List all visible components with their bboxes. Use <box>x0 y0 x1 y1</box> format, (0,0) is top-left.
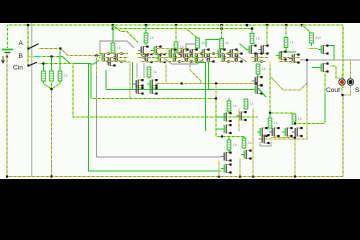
svg-text:S: S <box>355 87 360 94</box>
wire r13 bottom <box>311 43 313 46</box>
wire A <box>39 47 102 56</box>
wire r9 lead <box>221 25 223 39</box>
transistor Q34 <box>221 152 232 162</box>
resistor R9 <box>220 39 224 49</box>
wire c2 verts <box>137 63 144 78</box>
wire S led riser <box>342 60 351 79</box>
battery arrow <box>2 56 5 63</box>
switch B closed blade <box>29 56 35 58</box>
wire q41 out <box>271 136 296 177</box>
left +V wire <box>7 25 9 48</box>
wire res to ground <box>50 88 52 178</box>
svg-text:1k: 1k <box>201 40 205 45</box>
wire L2 rail <box>258 138 307 140</box>
wire r16 bottom <box>228 150 230 152</box>
transistor Q4 <box>151 46 162 56</box>
transistor Q37 <box>257 127 268 137</box>
transistor Q15 <box>187 49 198 59</box>
wire c5 diag <box>238 50 247 62</box>
transistor Q28 <box>289 54 300 64</box>
node rail x267 <box>266 24 268 26</box>
resistor R16 <box>227 140 231 150</box>
right rail wire upper <box>342 25 344 88</box>
wire c6 diag out <box>258 88 266 97</box>
svg-text:1k: 1k <box>250 101 254 106</box>
node bottom rail joins <box>218 176 220 178</box>
transistor Q12 <box>178 49 189 59</box>
wire drop x190 <box>190 58 201 84</box>
top +V rail wire <box>8 24 344 26</box>
wire gray S line <box>300 59 360 61</box>
wire yellow poly <box>270 62 307 90</box>
wire B highlight <box>35 56 41 58</box>
bottom 0V rail wire <box>7 176 343 178</box>
switch Cin blade <box>27 62 37 66</box>
wire r6 bottom <box>148 77 150 79</box>
wire r14 bottom <box>228 111 230 113</box>
node rail c5 <box>220 24 222 26</box>
wire r12 bottom <box>280 48 296 53</box>
resistor R14 <box>227 101 231 111</box>
svg-text:1k: 1k <box>117 45 121 50</box>
wire xor1 out <box>91 98 216 100</box>
node rail c8 <box>301 24 303 26</box>
wire B drop2 <box>90 64 92 99</box>
svg-text:4W: 4W <box>315 35 321 40</box>
wire r5 bottom <box>145 43 147 45</box>
wire top bus y28 <box>113 29 252 34</box>
node rail c1 <box>112 24 114 30</box>
transistor Q36 <box>221 164 232 174</box>
wire q30 out <box>325 66 340 123</box>
transistor Q18 <box>204 53 215 63</box>
svg-text:1k: 1k <box>64 73 68 78</box>
wire c1 loop <box>100 41 134 55</box>
transistor Q40 <box>292 127 303 137</box>
wire c8 diag <box>302 25 310 33</box>
resistor R18 <box>268 118 272 128</box>
wire L1 gates <box>216 117 221 129</box>
wire q29 gate feed <box>308 48 318 50</box>
transistor Q1 <box>99 53 110 63</box>
wire B drop1 <box>89 64 222 172</box>
transistor Q35 <box>241 150 252 160</box>
node rail c6 <box>246 24 248 26</box>
transistor Q9 <box>133 85 144 95</box>
resistor R8 <box>196 38 200 48</box>
svg-text:1k: 1k <box>233 142 237 147</box>
wire q41 loop <box>260 142 271 146</box>
svg-text:1k: 1k <box>298 116 302 121</box>
wire q30 gate <box>312 67 318 69</box>
svg-text:1k: 1k <box>262 66 266 71</box>
transistor Q38 <box>269 127 280 137</box>
wire L3 feeds <box>229 137 244 141</box>
transistor Q27 <box>276 51 287 61</box>
wire r18 lead <box>269 113 271 118</box>
resistor R7 <box>174 42 178 52</box>
pole rail wire <box>31 23 33 177</box>
transistor Q23 <box>246 45 257 55</box>
wire x270 drop low <box>269 66 294 114</box>
transistor Q20 <box>227 49 238 59</box>
resistor R13 <box>310 33 314 43</box>
wire drop x166 <box>165 63 167 84</box>
wire band row y61 <box>104 61 298 63</box>
transistor Q17 <box>192 53 203 63</box>
transistor Q26 <box>252 85 263 95</box>
wire L1 feed <box>229 99 246 102</box>
svg-text:1k: 1k <box>225 40 229 45</box>
wire c4 loop <box>186 44 196 52</box>
wire c1 out <box>90 60 99 64</box>
transistor Q31 <box>221 112 232 122</box>
transistor Q10 <box>147 85 158 95</box>
wire A drop <box>97 56 222 158</box>
right rail wire lower <box>342 95 344 177</box>
wire L3 drops <box>219 158 240 177</box>
wire green y122 <box>294 122 325 124</box>
transistor Q6 <box>155 53 166 63</box>
svg-text:A: A <box>19 40 24 47</box>
wire c2 curve <box>141 53 152 58</box>
transistor Q41 <box>259 134 270 144</box>
transistor Q19 <box>215 49 226 59</box>
resistor R6 <box>147 67 151 77</box>
wire LED leads <box>341 86 350 97</box>
svg-text:1k: 1k <box>248 140 252 145</box>
battery V1 <box>2 50 13 53</box>
resistor R15 <box>244 99 248 109</box>
svg-text:B: B <box>19 53 24 60</box>
wire Cin <box>39 62 74 64</box>
transistor Q13 <box>170 53 181 63</box>
node rail c2 <box>145 24 147 26</box>
transistor Q5 <box>142 53 153 63</box>
wire B <box>41 55 92 63</box>
wire x216 link <box>215 84 217 99</box>
transistor Q21 <box>219 53 230 63</box>
transistor Q30 <box>318 63 329 73</box>
wire gate stub2 <box>115 89 133 91</box>
resistor R10 <box>250 34 254 44</box>
svg-text:Cin: Cin <box>13 64 23 71</box>
wire rail branch <box>113 25 138 43</box>
svg-text:1k: 1k <box>150 35 154 40</box>
wire rail y83 <box>155 82 257 84</box>
node rail c7 <box>285 24 287 26</box>
wire mid green <box>106 70 252 90</box>
resistor R4 <box>111 43 115 53</box>
resistor R17 <box>242 138 246 148</box>
resistor R12 <box>284 38 288 48</box>
wire green y136 <box>216 135 244 137</box>
resistor R2 <box>50 71 54 81</box>
wire L1 drops <box>239 108 253 177</box>
LED Cout <box>339 79 345 85</box>
wire green pair <box>196 60 209 131</box>
wire Cin drop <box>73 64 258 118</box>
wire resistor leads <box>44 50 61 71</box>
svg-text:1k: 1k <box>290 40 294 45</box>
svg-text:1k: 1k <box>274 120 278 125</box>
transistor Q24b <box>252 53 263 63</box>
transistor Q14 <box>182 53 193 63</box>
wire resistor merge <box>44 81 61 89</box>
switch feed wire <box>27 24 29 66</box>
wire r4 bottom <box>112 52 114 55</box>
transistor Q39 <box>282 127 293 137</box>
svg-text:1k: 1k <box>180 44 184 49</box>
LED S <box>347 79 353 85</box>
switch A blade <box>27 44 38 50</box>
svg-text:1k: 1k <box>233 103 237 108</box>
resistor R11 <box>256 64 260 74</box>
wire gray x307 <box>306 60 308 139</box>
wire drop x129 <box>125 58 130 99</box>
transistor Q24 <box>258 45 269 55</box>
wire band row y53 <box>98 53 240 55</box>
transistor Q25 <box>252 76 263 86</box>
svg-text:1k: 1k <box>153 69 157 74</box>
transistor Q29 <box>318 45 329 55</box>
wire green x216 <box>215 97 217 136</box>
transistor Q16 <box>199 49 210 59</box>
wire x267 drop <box>266 25 268 44</box>
resistor R5 <box>144 33 148 43</box>
wire r7 bottom <box>175 52 177 53</box>
svg-text:1k: 1k <box>256 36 260 41</box>
transistor Q22 <box>232 53 243 63</box>
transistor Q11 <box>166 49 177 59</box>
wire A to c3 <box>155 48 188 50</box>
wire band row y57 <box>100 57 300 59</box>
left 0V wire <box>6 53 8 177</box>
wire r7 lead <box>175 25 177 42</box>
wire c2 gate riser <box>132 62 134 90</box>
node rail c3 <box>175 24 177 26</box>
transistor Q2 <box>112 53 123 63</box>
transistor Q7 <box>133 79 144 89</box>
transistor Q1b <box>105 57 116 67</box>
wire r5 lead <box>145 25 147 33</box>
transistor Q8 <box>147 79 158 89</box>
transistor Q3 <box>138 46 149 56</box>
resistor R3 <box>58 71 62 81</box>
wire r10 bottom <box>251 44 253 45</box>
wire c4 diag <box>186 29 198 39</box>
wire c1 links <box>98 54 125 62</box>
resistor R1 <box>42 71 46 81</box>
transistor Q32 <box>236 111 247 121</box>
svg-text:Cout: Cout <box>326 87 340 94</box>
wire q29 out <box>329 46 334 61</box>
transistor Q33 <box>221 124 232 134</box>
wire r4 lead <box>112 25 114 43</box>
wire gray V c3c4 <box>164 59 204 65</box>
resistor R19 <box>292 114 296 124</box>
battery node <box>6 56 8 58</box>
wire r12 lead <box>285 25 287 38</box>
wire r11 bottom <box>257 74 259 77</box>
wire c6 diag <box>251 27 253 29</box>
wire c4 cross <box>198 40 248 51</box>
